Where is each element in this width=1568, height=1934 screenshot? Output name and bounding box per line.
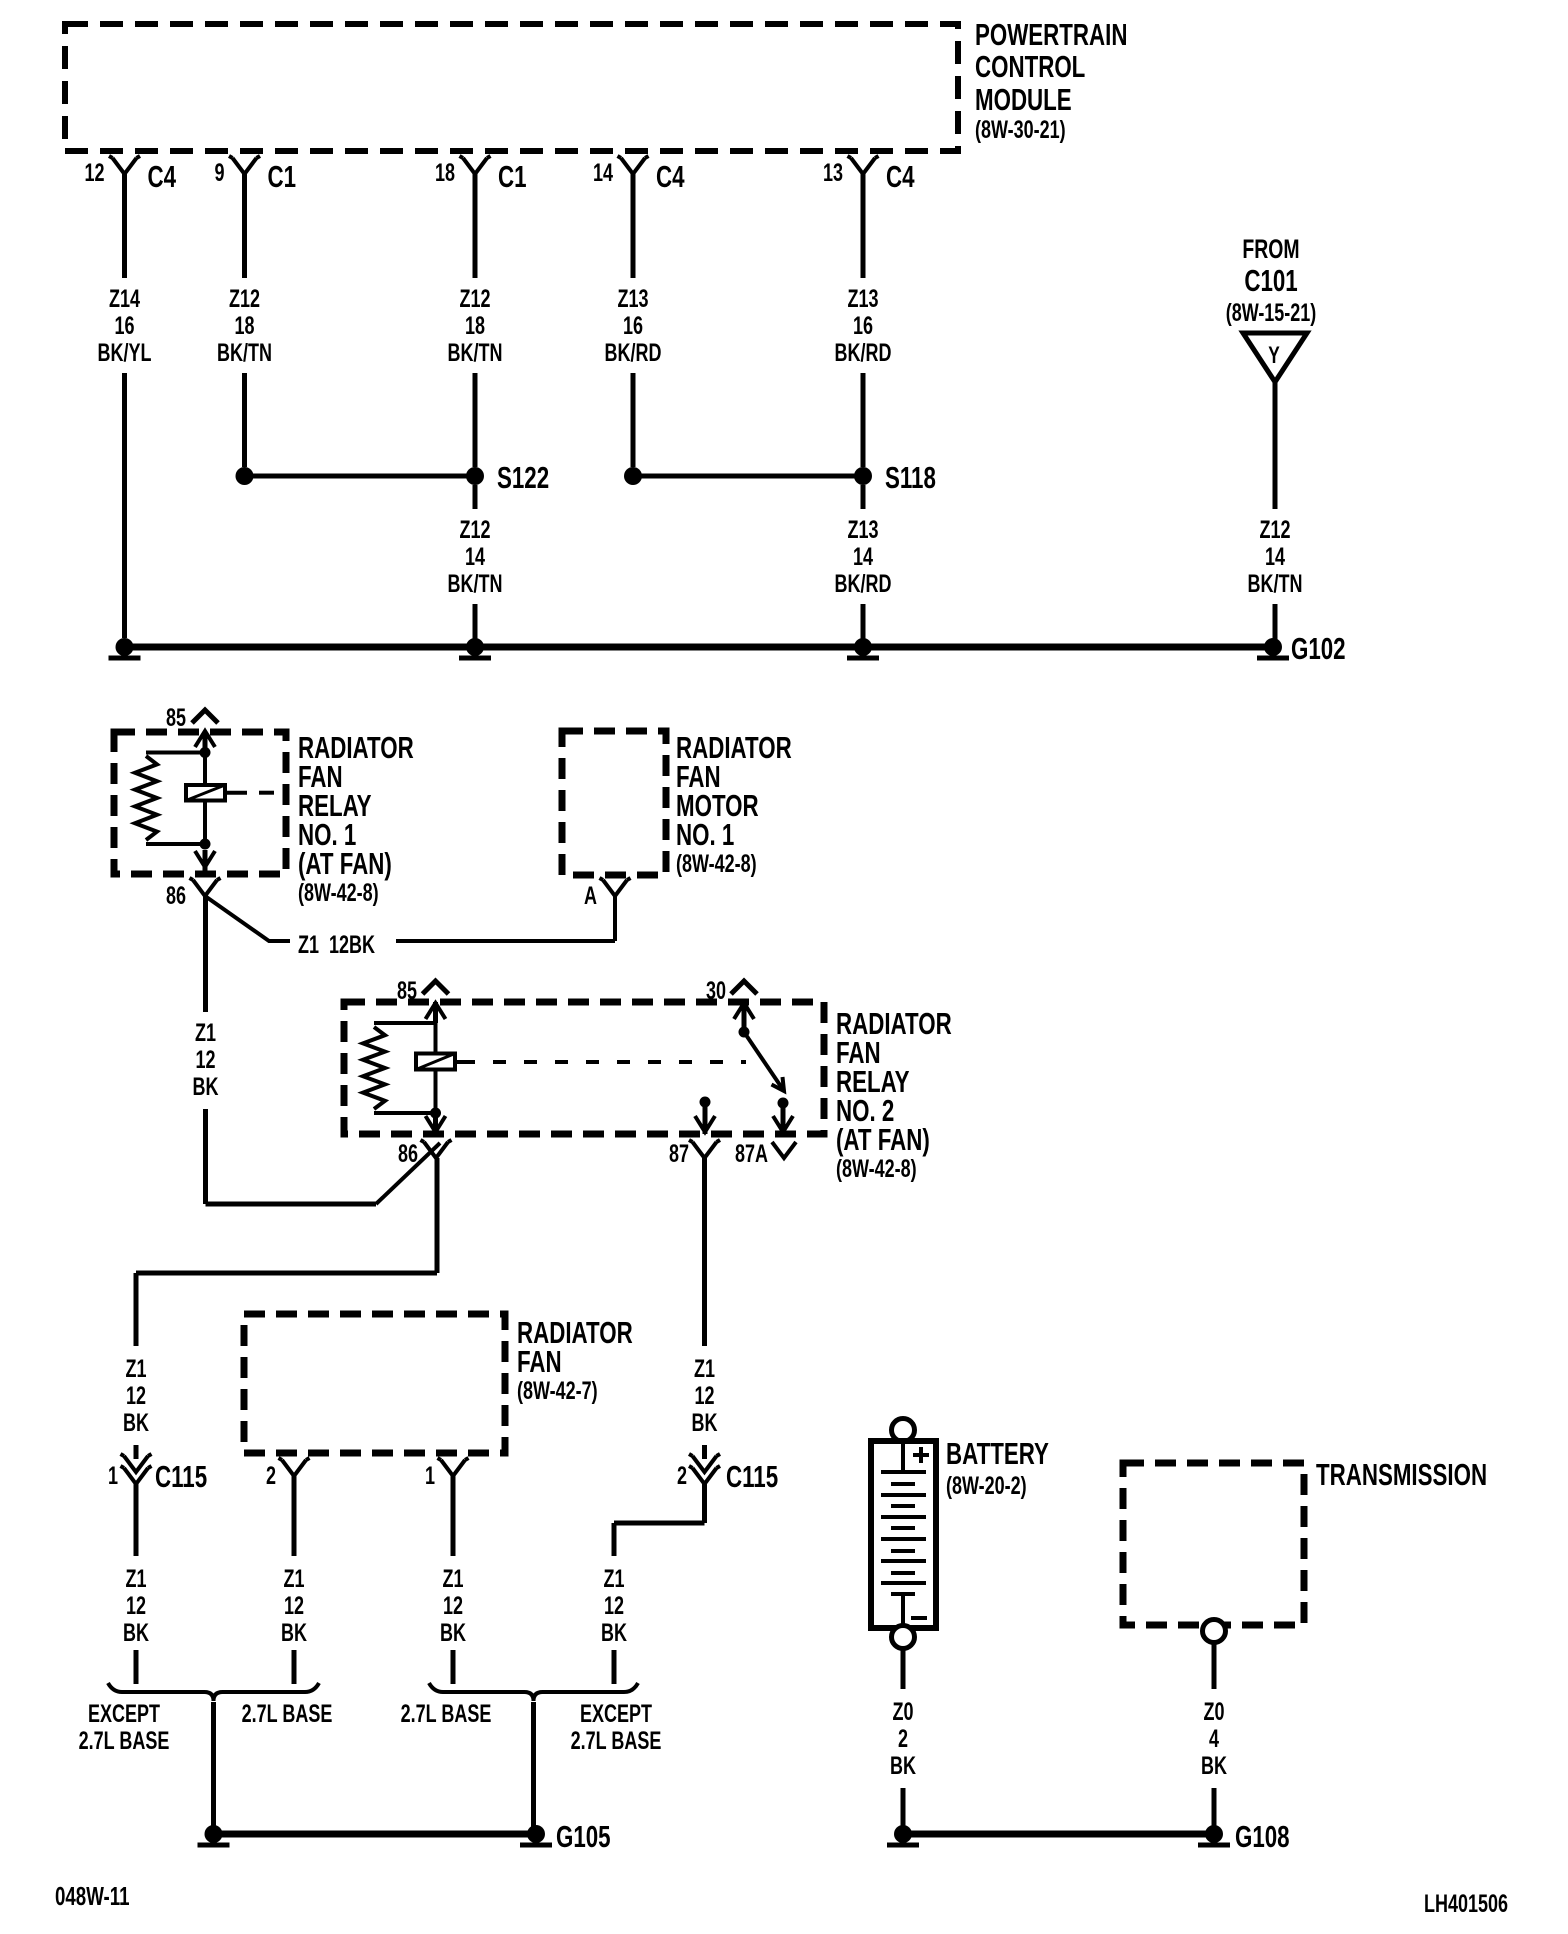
svg-text:BK: BK [123,1408,149,1437]
PCM pin 14 connector C4 [593,156,685,194]
footer code LH401506 [1424,1889,1508,1918]
svg-text:Z1: Z1 [604,1564,625,1593]
svg-text:2: 2 [898,1724,908,1753]
wire Z1 12 BK col 4 to brace [601,1484,704,1684]
PCM pin 9 connector C1 [214,156,296,194]
svg-text:BK/RD: BK/RD [835,569,892,598]
PCM box POWERTRAIN CONTROL MODULE [65,24,958,151]
svg-text:POWERTRAIN: POWERTRAIN [975,17,1127,51]
svg-text:Y: Y [1268,342,1280,368]
svg-text:C4: C4 [886,159,915,193]
wire Z1 12BK relay1-86 to motor A [205,896,615,959]
svg-text:12: 12 [694,1381,714,1410]
PCM pin 12 connector C4 [84,156,176,194]
label EXCEPT 2.7L BASE right [571,1699,662,1755]
svg-text:G102: G102 [1291,631,1346,665]
wire Z12 14 BK/TN from C101 [1248,382,1303,640]
wire Z13 16 BK/RD from pin [605,174,662,467]
svg-text:12: 12 [604,1591,624,1620]
svg-text:87A: 87A [735,1139,768,1168]
svg-text:BK: BK [440,1618,466,1647]
svg-text:2.7L BASE: 2.7L BASE [79,1726,170,1755]
svg-text:BK/YL: BK/YL [98,338,152,367]
wire Z1 12 BK col 3 to brace [440,1476,466,1684]
svg-text:BK: BK [890,1751,916,1780]
wire Z1 12 BK relay1-86 down to relay2-86 [193,896,440,1204]
relay 2 switch [744,1032,784,1091]
motor box RADIATOR FAN MOTOR NO. 1 [562,731,666,875]
relay 1 pin 85 [166,703,218,752]
svg-text:BATTERY: BATTERY [946,1436,1049,1470]
svg-text:14: 14 [853,542,873,571]
label 2.7L BASE right [401,1699,492,1728]
svg-text:G105: G105 [556,1819,611,1853]
svg-text:(8W-42-8): (8W-42-8) [836,1154,917,1183]
svg-text:BK/TN: BK/TN [1248,569,1303,598]
svg-text:Z12: Z12 [229,284,260,313]
svg-text:C115: C115 [155,1459,207,1493]
svg-text:C4: C4 [148,159,177,193]
svg-text:4: 4 [1209,1724,1219,1753]
ground G105 [198,1819,611,1853]
svg-text:FAN: FAN [517,1344,562,1378]
svg-text:86: 86 [398,1139,418,1168]
transmission label [1316,1457,1487,1491]
svg-text:18: 18 [435,158,455,187]
relay 1 coil [186,747,274,850]
svg-text:14: 14 [465,542,485,571]
wire Z13 16 BK/RD from pin [835,174,892,467]
svg-text:86: 86 [166,881,186,910]
ground G102 [109,631,1346,665]
svg-text:16: 16 [623,311,643,340]
svg-text:Z12: Z12 [1259,515,1290,544]
svg-text:2: 2 [677,1461,687,1490]
svg-text:Z14: Z14 [109,284,140,313]
wire Z12 14 BK/TN below S122 [448,485,503,640]
wire Z0 4 BK transmission to G108 [1201,1643,1227,1827]
svg-text:BK: BK [601,1618,627,1647]
battery label [946,1436,1049,1499]
svg-text:(8W-42-8): (8W-42-8) [298,878,379,907]
svg-text:BK/TN: BK/TN [217,338,272,367]
svg-text:(AT FAN): (AT FAN) [836,1122,930,1156]
svg-text:Z0: Z0 [1204,1697,1225,1726]
relay box RADIATOR FAN RELAY NO. 2 [344,1002,824,1134]
svg-text:12: 12 [443,1591,463,1620]
svg-text:87: 87 [669,1139,689,1168]
motor 1 pin A [584,878,630,910]
wire Z12 18 BK/TN from pin [217,174,272,467]
ground G108 [887,1819,1290,1853]
svg-text:(8W-30-21): (8W-30-21) [975,115,1066,144]
svg-text:(8W-15-21): (8W-15-21) [1226,298,1317,327]
svg-text:2: 2 [266,1461,276,1490]
svg-text:BK: BK [692,1408,718,1437]
relay 2 pin 85 [397,976,449,1023]
wire Z0 2 BK battery to G108 [890,1649,916,1827]
wire right brace to G105 [531,1702,536,1827]
wire Z1 12 BK col 1 to brace [123,1484,149,1684]
svg-text:18: 18 [234,311,254,340]
svg-text:C115: C115 [726,1459,778,1493]
svg-text:Z1: Z1 [284,1564,305,1593]
wire Z1 12 BK relay2-87 to C115 pin 2 [692,1158,718,1459]
svg-text:2.7L BASE: 2.7L BASE [401,1699,492,1728]
splice S122 [236,460,550,494]
connector C115 pin 1 [108,1454,207,1494]
svg-text:12: 12 [126,1381,146,1410]
svg-text:Z13: Z13 [847,515,878,544]
wire left brace to G105 [211,1702,216,1827]
svg-text:BK/RD: BK/RD [835,338,892,367]
svg-text:9: 9 [214,158,224,187]
svg-text:048W-11: 048W-11 [55,1881,130,1911]
fan label [517,1315,633,1404]
svg-text:C1: C1 [268,159,297,193]
svg-text:Z1: Z1 [126,1354,147,1383]
svg-text:S118: S118 [885,460,936,494]
svg-text:Z13: Z13 [617,284,648,313]
label EXCEPT 2.7L BASE left [79,1699,170,1755]
label 2.7L BASE left [242,1699,333,1728]
svg-text:BK: BK [281,1618,307,1647]
svg-text:EXCEPT: EXCEPT [88,1699,161,1728]
wire Z1 12 BK col 2 to brace [281,1476,307,1684]
svg-text:(8W-42-7): (8W-42-7) [517,1376,598,1405]
svg-text:Z13: Z13 [847,284,878,313]
svg-text:85: 85 [397,976,417,1005]
svg-text:S122: S122 [497,460,549,494]
svg-text:LH401506: LH401506 [1424,1889,1508,1918]
relay 2 coil resistor [363,1023,436,1113]
PCM label [975,17,1127,143]
battery body [871,1441,936,1628]
svg-text:BK: BK [1201,1751,1227,1780]
svg-text:BK: BK [193,1072,219,1101]
fan box RADIATOR FAN [244,1314,505,1453]
relay box RADIATOR FAN RELAY NO. 1 [114,732,286,874]
motor 1 label [676,730,792,877]
svg-text:2.7L BASE: 2.7L BASE [571,1726,662,1755]
svg-text:16: 16 [853,311,873,340]
svg-text:NO. 1: NO. 1 [676,817,734,851]
svg-text:Z1: Z1 [195,1018,216,1047]
svg-text:Z12: Z12 [459,284,490,313]
svg-text:Z1: Z1 [694,1354,715,1383]
svg-text:FROM: FROM [1242,234,1299,264]
svg-text:30: 30 [706,976,726,1005]
svg-text:CONTROL: CONTROL [975,49,1085,83]
svg-text:BK/RD: BK/RD [605,338,662,367]
svg-text:Z12: Z12 [459,515,490,544]
wire Z13 14 BK/RD below S118 [835,485,892,640]
wire Z12 18 BK/TN from pin [448,174,503,467]
svg-text:Z1: Z1 [443,1564,464,1593]
svg-text:BK/TN: BK/TN [448,338,503,367]
svg-text:13: 13 [823,158,843,187]
relay 2 pin 87 [669,1097,720,1168]
relay 2 coil [416,1023,746,1119]
PCM pin 18 connector C1 [435,156,527,194]
svg-text:G108: G108 [1235,1819,1290,1853]
svg-text:(AT FAN): (AT FAN) [298,846,392,880]
svg-text:Z0: Z0 [893,1697,914,1726]
svg-text:1: 1 [425,1461,435,1490]
svg-text:EXCEPT: EXCEPT [580,1699,653,1728]
transmission box [1123,1463,1304,1625]
svg-text:12: 12 [284,1591,304,1620]
svg-text:Z1 12BK: Z1 12BK [298,930,375,959]
relay 2 pin 87A [735,1098,796,1168]
battery B+ terminal [892,1419,915,1442]
svg-text:18: 18 [465,311,485,340]
PCM pin 13 connector C4 [823,156,915,194]
splice S118 [624,460,936,494]
off-page connector from C101 [1226,234,1317,382]
svg-text:C101: C101 [1244,263,1297,297]
svg-text:14: 14 [1265,542,1285,571]
brace left group [108,1683,319,1701]
svg-text:85: 85 [166,703,186,732]
transmission ground terminal [1203,1620,1226,1643]
svg-text:(8W-20-2): (8W-20-2) [946,1471,1027,1500]
svg-text:Z1: Z1 [126,1564,147,1593]
svg-text:1: 1 [108,1461,118,1490]
relay 2 pin 30 [706,976,757,1037]
svg-text:BK/TN: BK/TN [448,569,503,598]
svg-text:(8W-42-8): (8W-42-8) [676,849,757,878]
svg-text:16: 16 [114,311,134,340]
battery negative terminal [892,1626,915,1649]
relay 2 pin 86 [398,1115,452,1168]
fan pin 1 [425,1458,469,1490]
footer sheet number 048W-11 [55,1881,130,1911]
svg-text:MODULE: MODULE [975,82,1072,116]
relay 2 label [836,1006,952,1182]
svg-text:BK: BK [123,1618,149,1647]
brace right group [429,1683,638,1701]
relay 1 coil resistor [135,753,205,845]
svg-text:A: A [584,881,597,910]
svg-text:TRANSMISSION: TRANSMISSION [1316,1457,1487,1491]
svg-text:2.7L BASE: 2.7L BASE [242,1699,333,1728]
wire Z14 16 BK/YL from pin [98,174,152,638]
wire relay2-86 to C115 pin 1 [123,1158,437,1459]
svg-text:14: 14 [593,158,613,187]
svg-text:12: 12 [84,158,104,187]
svg-text:12: 12 [195,1045,215,1074]
svg-text:12: 12 [126,1591,146,1620]
svg-text:C4: C4 [656,159,685,193]
relay 1 label [298,730,414,906]
relay 1 pin 86 [166,850,221,910]
connector C115 pin 2 [677,1454,778,1494]
fan pin 2 [266,1458,310,1490]
svg-text:C1: C1 [498,159,527,193]
